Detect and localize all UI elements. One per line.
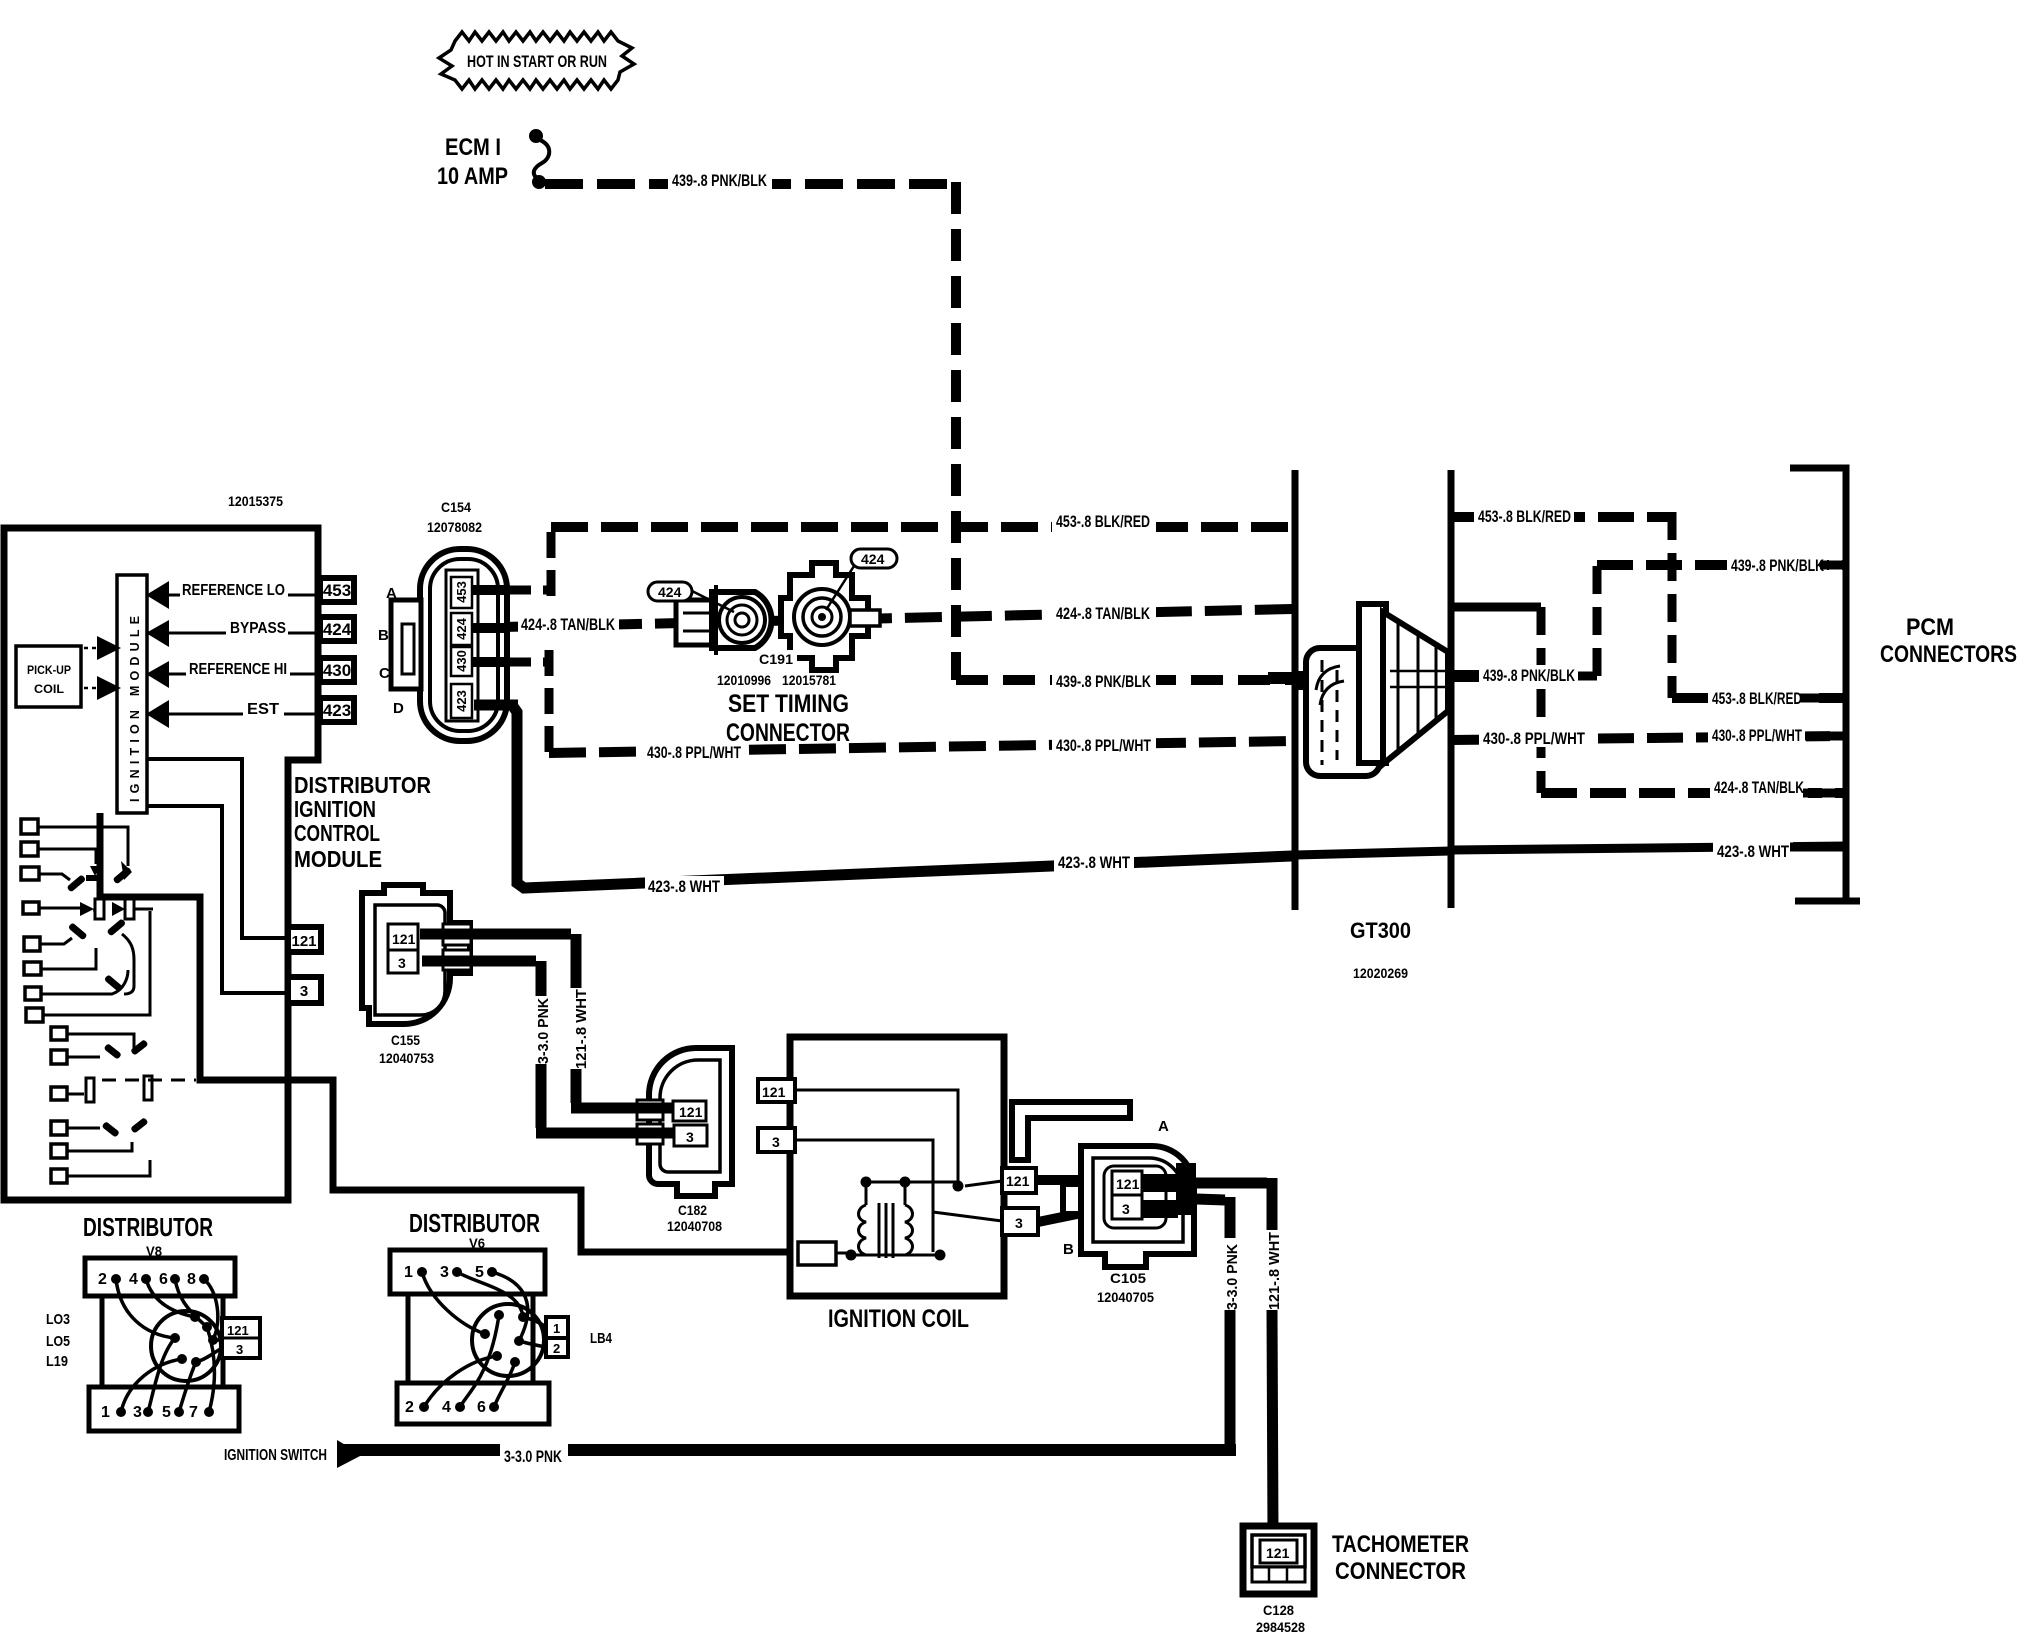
svg-text:5: 5 [162, 1404, 171, 1421]
svg-text:121: 121 [762, 1084, 786, 1100]
svg-text:1: 1 [553, 1321, 560, 1336]
svg-text:12040705: 12040705 [1097, 1289, 1154, 1305]
svg-text:430: 430 [454, 650, 469, 672]
svg-text:3: 3 [236, 1342, 243, 1357]
svg-text:2984528: 2984528 [1256, 1619, 1305, 1632]
svg-text:GT300: GT300 [1350, 918, 1411, 943]
svg-text:12020269: 12020269 [1353, 965, 1408, 981]
svg-text:C182: C182 [678, 1202, 707, 1218]
svg-text:IGNITION: IGNITION [294, 796, 376, 822]
svg-text:430-.8 PPL/WHT: 430-.8 PPL/WHT [1483, 730, 1585, 748]
svg-text:453: 453 [454, 581, 469, 603]
svg-text:2: 2 [98, 1271, 107, 1288]
svg-text:1: 1 [101, 1404, 110, 1421]
svg-text:HOT IN START OR RUN: HOT IN START OR RUN [467, 52, 607, 71]
svg-text:12015375: 12015375 [228, 493, 283, 509]
svg-text:A: A [1158, 1118, 1169, 1135]
svg-text:3-3.0 PNK: 3-3.0 PNK [535, 998, 552, 1064]
svg-text:C128: C128 [1263, 1602, 1294, 1618]
svg-text:EST: EST [247, 701, 280, 718]
svg-text:453: 453 [323, 581, 351, 600]
svg-text:3-3.0 PNK: 3-3.0 PNK [1224, 1244, 1241, 1310]
svg-text:TACHOMETER: TACHOMETER [1332, 1531, 1469, 1558]
svg-text:2: 2 [405, 1399, 414, 1416]
svg-text:C154: C154 [441, 499, 471, 515]
svg-text:121: 121 [392, 931, 416, 947]
svg-text:4: 4 [442, 1399, 451, 1416]
svg-text:121: 121 [679, 1104, 703, 1120]
svg-text:424-.8 TAN/BLK: 424-.8 TAN/BLK [1714, 779, 1804, 797]
svg-text:121: 121 [291, 933, 316, 950]
svg-text:3: 3 [686, 1129, 694, 1145]
svg-text:1: 1 [404, 1264, 413, 1281]
svg-text:BYPASS: BYPASS [230, 620, 286, 637]
svg-text:424: 424 [323, 620, 352, 639]
svg-text:4: 4 [129, 1271, 138, 1288]
svg-text:5: 5 [475, 1264, 484, 1281]
svg-text:3: 3 [398, 955, 406, 971]
svg-text:439-.8 PNK/BLK: 439-.8 PNK/BLK [1483, 667, 1575, 685]
svg-text:IGNITION SWITCH: IGNITION SWITCH [224, 1447, 327, 1464]
svg-text:423: 423 [454, 690, 469, 712]
svg-text:ECM I: ECM I [445, 134, 501, 161]
svg-text:424: 424 [454, 617, 469, 639]
svg-text:423-.8 WHT: 423-.8 WHT [1058, 854, 1130, 872]
svg-text:121: 121 [1006, 1173, 1030, 1189]
svg-text:7: 7 [189, 1404, 198, 1421]
svg-text:LO5: LO5 [46, 1333, 70, 1350]
svg-text:3: 3 [772, 1134, 780, 1150]
svg-text:REFERENCE HI: REFERENCE HI [189, 661, 287, 678]
svg-text:424: 424 [861, 551, 885, 567]
svg-text:L19: L19 [46, 1353, 68, 1370]
svg-text:424: 424 [658, 584, 682, 600]
svg-text:10 AMP: 10 AMP [437, 163, 508, 190]
svg-text:PICK-UP: PICK-UP [27, 663, 71, 677]
svg-text:423-.8 WHT: 423-.8 WHT [648, 878, 720, 896]
svg-text:453-.8 BLK/RED: 453-.8 BLK/RED [1712, 690, 1802, 708]
svg-text:424-.8 TAN/BLK: 424-.8 TAN/BLK [521, 616, 615, 634]
svg-text:453-.8 BLK/RED: 453-.8 BLK/RED [1056, 513, 1150, 531]
svg-text:12015781: 12015781 [782, 672, 836, 688]
svg-text:121-.8 WHT: 121-.8 WHT [573, 989, 590, 1069]
svg-text:IGNITION COIL: IGNITION COIL [828, 1305, 969, 1333]
svg-text:2: 2 [553, 1341, 560, 1356]
svg-text:453-.8 BLK/RED: 453-.8 BLK/RED [1478, 508, 1571, 526]
svg-text:3: 3 [1015, 1215, 1023, 1231]
svg-text:121: 121 [227, 1323, 249, 1338]
svg-text:3: 3 [300, 983, 308, 1000]
svg-text:3-3.0 PNK: 3-3.0 PNK [504, 1448, 562, 1466]
svg-text:8: 8 [187, 1271, 196, 1288]
svg-text:121-.8 WHT: 121-.8 WHT [1266, 1232, 1283, 1310]
svg-text:B: B [378, 627, 389, 644]
svg-text:C: C [379, 665, 390, 682]
svg-text:REFERENCE LO: REFERENCE LO [182, 582, 285, 599]
svg-text:CONNECTORS: CONNECTORS [1880, 641, 2017, 668]
svg-text:430-.8 PPL/WHT: 430-.8 PPL/WHT [1056, 737, 1151, 755]
svg-text:12040753: 12040753 [379, 1050, 434, 1066]
svg-text:423-.8 WHT: 423-.8 WHT [1717, 843, 1789, 861]
svg-text:LB4: LB4 [590, 1330, 613, 1347]
svg-text:3: 3 [440, 1264, 449, 1281]
svg-text:LO3: LO3 [46, 1311, 70, 1328]
svg-text:424-.8 TAN/BLK: 424-.8 TAN/BLK [1056, 605, 1150, 623]
svg-text:12078082: 12078082 [427, 519, 482, 535]
svg-text:SET TIMING: SET TIMING [728, 690, 849, 718]
svg-text:DISTRIBUTOR: DISTRIBUTOR [83, 1212, 213, 1242]
svg-text:DISTRIBUTOR: DISTRIBUTOR [294, 772, 431, 798]
svg-text:430: 430 [323, 661, 351, 680]
svg-text:430-.8 PPL/WHT: 430-.8 PPL/WHT [1712, 727, 1802, 745]
svg-text:A: A [386, 585, 397, 602]
svg-text:PCM: PCM [1906, 614, 1954, 641]
svg-text:12010996: 12010996 [717, 672, 771, 688]
svg-text:12040708: 12040708 [667, 1218, 722, 1234]
svg-text:MODULE: MODULE [294, 846, 382, 872]
svg-text:3: 3 [1122, 1201, 1130, 1217]
svg-text:C155: C155 [391, 1032, 420, 1048]
svg-text:439-.8 PNK/BLK: 439-.8 PNK/BLK [1056, 673, 1151, 691]
svg-text:DISTRIBUTOR: DISTRIBUTOR [409, 1208, 540, 1238]
svg-text:6: 6 [477, 1399, 486, 1416]
svg-text:B: B [1063, 1241, 1074, 1258]
svg-text:CONNECTOR: CONNECTOR [726, 719, 850, 747]
svg-text:CONTROL: CONTROL [294, 820, 380, 846]
svg-text:C191: C191 [759, 651, 793, 667]
svg-text:3: 3 [133, 1404, 142, 1421]
svg-text:COIL: COIL [34, 682, 64, 696]
svg-text:D: D [393, 700, 404, 717]
svg-text:CONNECTOR: CONNECTOR [1335, 1558, 1466, 1585]
svg-text:439-.8 PNK/BLK: 439-.8 PNK/BLK [672, 172, 767, 190]
svg-text:IGNITION MODULE: IGNITION MODULE [128, 611, 142, 802]
svg-text:439-.8 PNK/BLK: 439-.8 PNK/BLK [1731, 557, 1824, 575]
svg-text:6: 6 [159, 1271, 168, 1288]
svg-text:C105: C105 [1110, 1270, 1146, 1286]
svg-text:423: 423 [323, 701, 351, 720]
svg-text:121: 121 [1116, 1176, 1140, 1192]
svg-text:121: 121 [1266, 1545, 1290, 1561]
